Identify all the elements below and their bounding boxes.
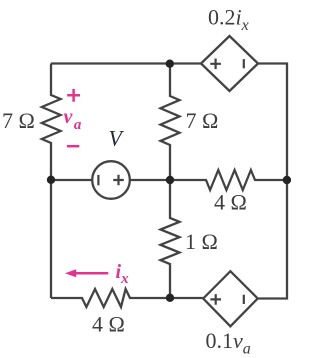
svg-text:1 Ω: 1 Ω: [185, 229, 218, 254]
svg-text:4 Ω: 4 Ω: [214, 190, 247, 215]
svg-text:4 Ω: 4 Ω: [92, 312, 125, 337]
svg-text:7 Ω: 7 Ω: [2, 108, 35, 133]
svg-text:7 Ω: 7 Ω: [186, 108, 219, 133]
